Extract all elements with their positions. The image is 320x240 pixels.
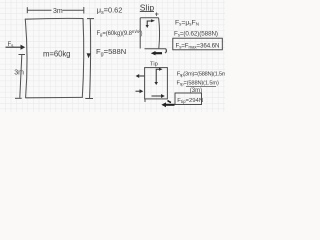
svg-text:Fs: Fs [8, 42, 15, 48]
svg-text:3m: 3m [53, 8, 63, 15]
svg-text:Fs=Fmax=364.6N: Fs=Fmax=364.6N [176, 42, 220, 49]
svg-text:Slip: Slip [140, 2, 155, 12]
svg-text:μs=0.62: μs=0.62 [97, 6, 123, 16]
svg-text:Ftip=294N: Ftip=294N [177, 98, 203, 104]
svg-text:Fs=μsFN: Fs=μsFN [175, 19, 199, 26]
svg-text:m=60kg: m=60kg [43, 50, 70, 59]
svg-text:Ftip=(588N)(1.5m): Ftip=(588N)(1.5m) [177, 81, 219, 87]
svg-text:Tip: Tip [150, 62, 158, 68]
svg-text:Fg=588N: Fg=588N [96, 47, 126, 58]
svg-text:Ftip(3m)=(588N)(1.5m): Ftip(3m)=(588N)(1.5m) [177, 71, 225, 77]
svg-text:3m: 3m [14, 70, 24, 77]
svg-text:Fs=(0.62)(588N): Fs=(0.62)(588N) [174, 30, 218, 37]
